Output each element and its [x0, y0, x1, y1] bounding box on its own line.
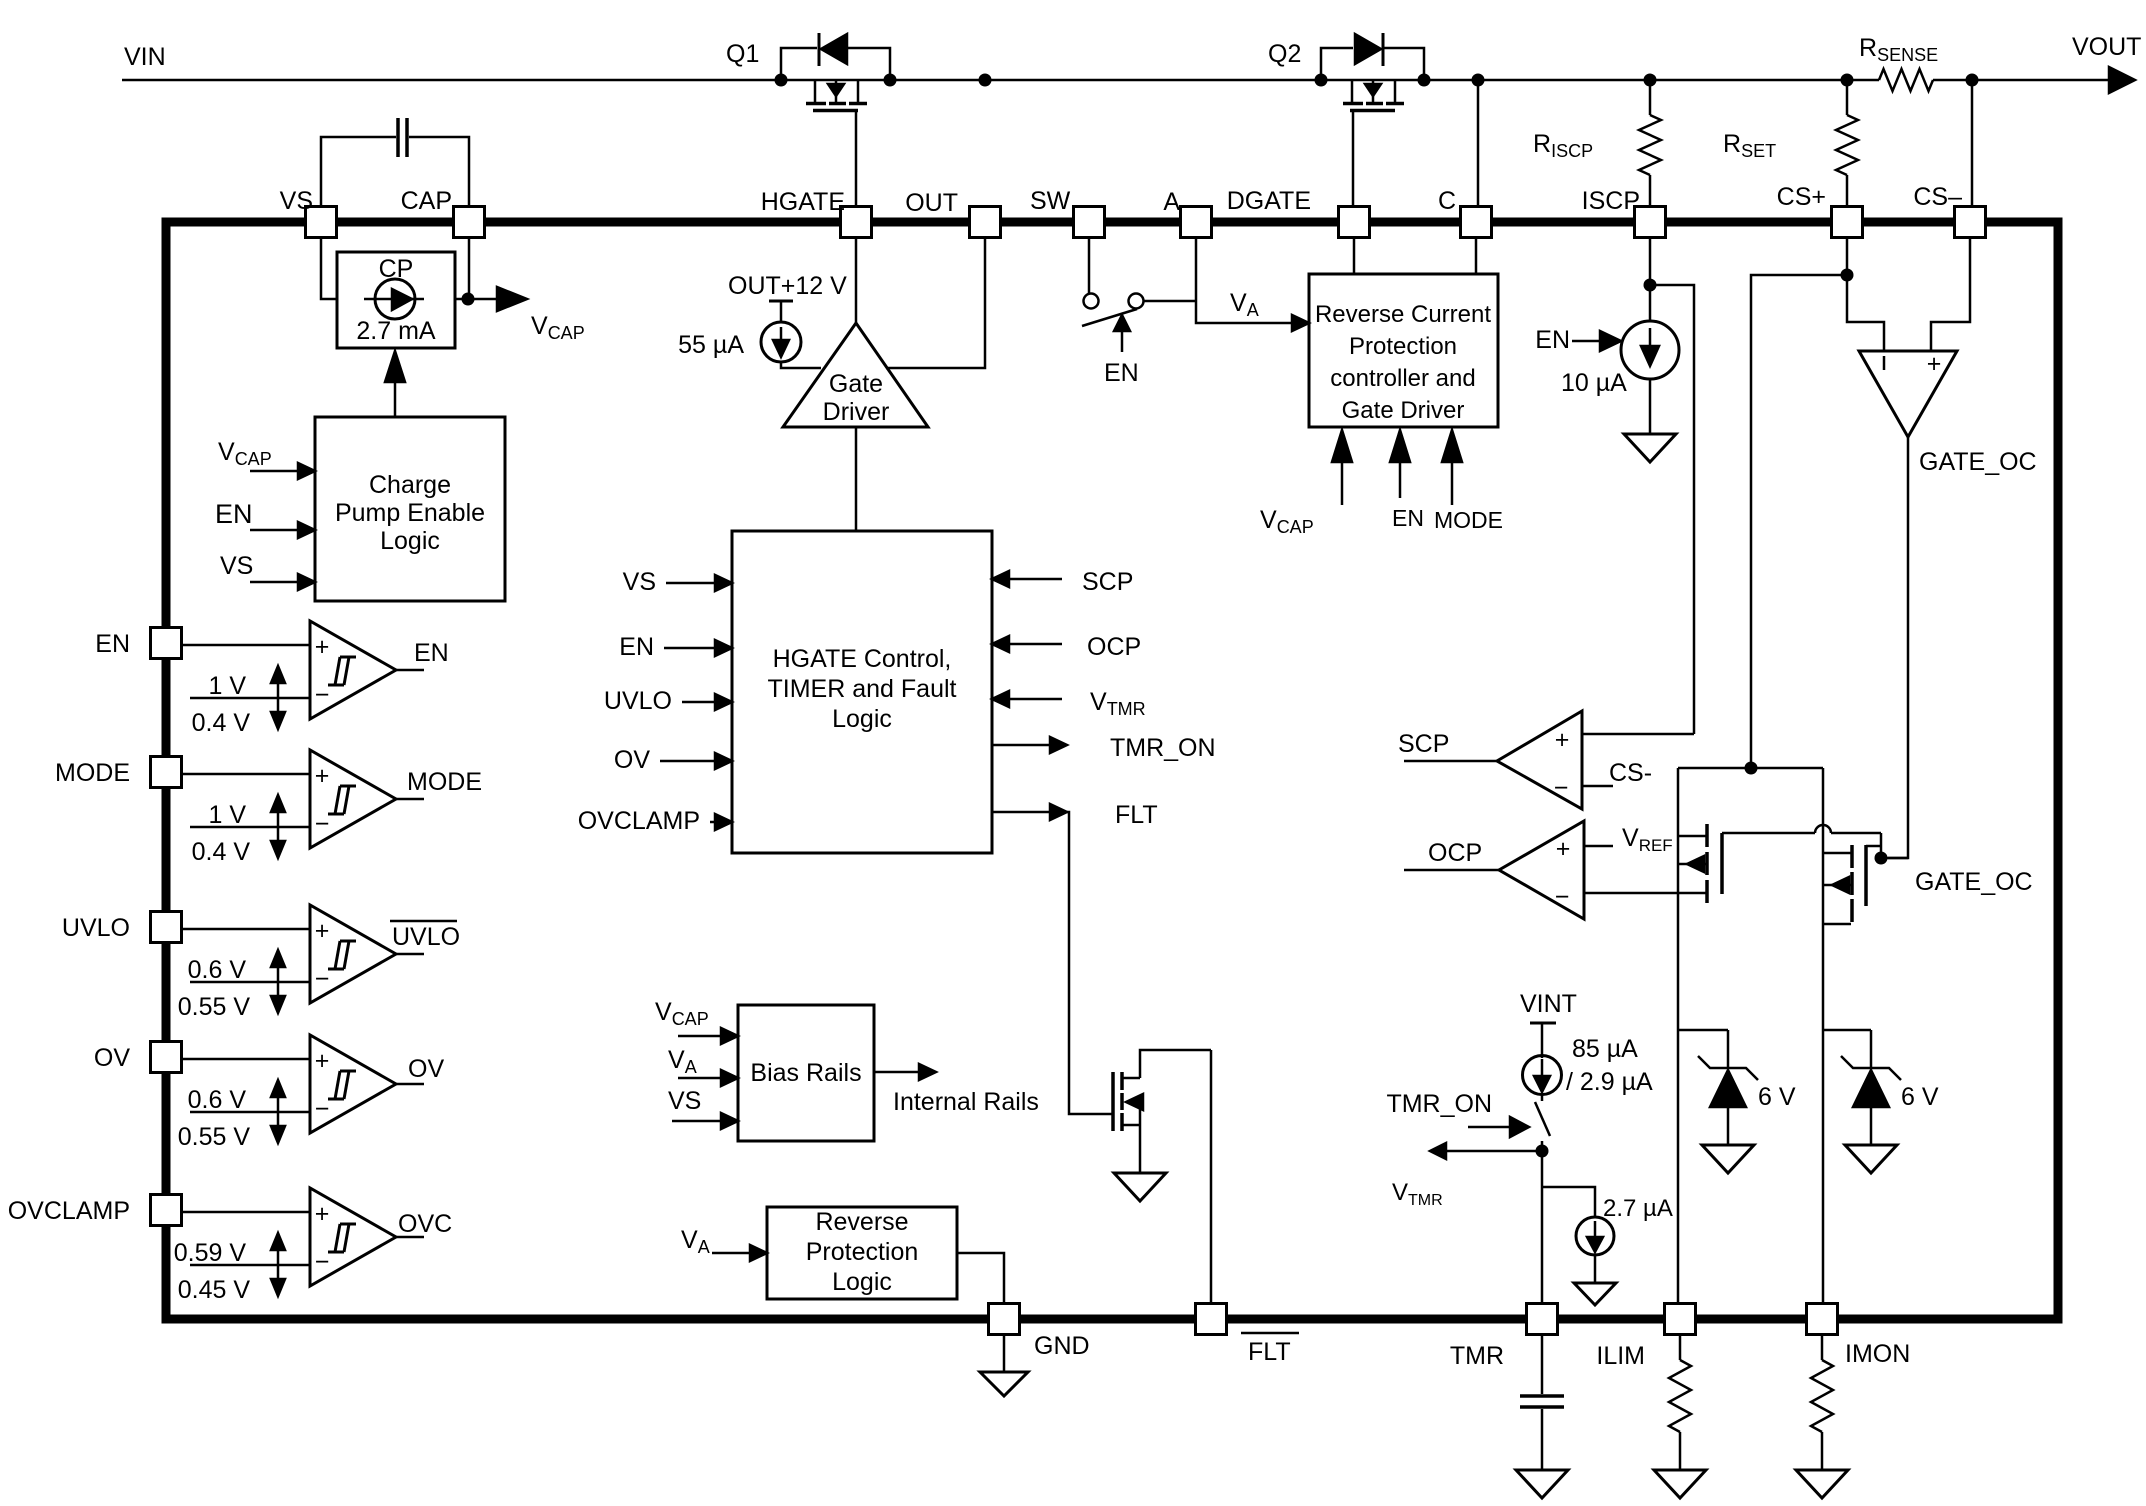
svg-text:EN: EN	[95, 630, 130, 658]
svg-text:OV: OV	[94, 1044, 130, 1072]
svg-text:VOUT: VOUT	[2072, 33, 2141, 61]
svg-text:OUT+12 V: OUT+12 V	[728, 272, 847, 300]
svg-text:GATE_OC: GATE_OC	[1915, 868, 2033, 896]
svg-text:VIN: VIN	[124, 43, 166, 71]
svg-text:−: −	[1554, 774, 1569, 802]
svg-text:OVCLAMP: OVCLAMP	[8, 1197, 130, 1225]
svg-text:TIMER and Fault: TIMER and Fault	[768, 675, 957, 703]
svg-text:−: −	[315, 1095, 330, 1123]
svg-text:0.55 V: 0.55 V	[178, 1123, 251, 1151]
svg-text:Reverse Current: Reverse Current	[1315, 301, 1491, 328]
svg-text:+: +	[315, 633, 330, 661]
svg-text:Logic: Logic	[380, 527, 440, 555]
svg-text:FLT: FLT	[1115, 801, 1158, 829]
svg-text:C: C	[1438, 187, 1456, 215]
svg-text:VS: VS	[280, 187, 313, 215]
svg-text:OUT: OUT	[905, 189, 958, 217]
svg-text:+: +	[315, 762, 330, 790]
svg-text:MODE: MODE	[1434, 507, 1503, 533]
svg-text:EN: EN	[619, 633, 654, 661]
svg-text:0.6 V: 0.6 V	[188, 1086, 247, 1114]
svg-text:TMR_ON: TMR_ON	[1386, 1090, 1492, 1118]
svg-text:EN: EN	[1392, 505, 1424, 531]
svg-text:DGATE: DGATE	[1227, 187, 1311, 215]
svg-text:Q2: Q2	[1268, 40, 1301, 68]
svg-text:55 µA: 55 µA	[678, 331, 744, 359]
svg-text:TMR_ON: TMR_ON	[1110, 734, 1216, 762]
svg-text:−: −	[315, 810, 330, 838]
svg-text:TMR: TMR	[1450, 1342, 1504, 1370]
svg-text:controller and: controller and	[1330, 365, 1475, 392]
svg-text:Protection: Protection	[1349, 333, 1457, 360]
svg-text:+: +	[315, 1047, 330, 1075]
svg-text:10 µA: 10 µA	[1561, 369, 1627, 397]
svg-text:OV: OV	[408, 1055, 444, 1083]
svg-text:85 µA: 85 µA	[1572, 1035, 1638, 1063]
svg-text:MODE: MODE	[55, 759, 130, 787]
svg-text:ISCP: ISCP	[1582, 187, 1640, 215]
svg-text:Pump Enable: Pump Enable	[335, 499, 485, 527]
svg-text:EN: EN	[215, 499, 253, 529]
svg-text:+: +	[1927, 350, 1942, 378]
svg-text:FLT: FLT	[1248, 1338, 1291, 1366]
svg-text:SCP: SCP	[1398, 730, 1449, 758]
svg-text:Q1: Q1	[726, 40, 759, 68]
svg-text:Protection: Protection	[806, 1238, 919, 1266]
svg-text:OV: OV	[614, 746, 650, 774]
svg-text:CAP: CAP	[401, 187, 452, 215]
svg-text:0.55 V: 0.55 V	[178, 993, 251, 1021]
svg-text:SCP: SCP	[1082, 568, 1133, 596]
svg-text:A: A	[1163, 188, 1180, 216]
svg-text:SW: SW	[1030, 187, 1071, 215]
svg-text:1 V: 1 V	[208, 672, 246, 700]
svg-text:EN: EN	[414, 639, 449, 667]
svg-text:Charge: Charge	[369, 471, 451, 499]
svg-text:−: −	[315, 681, 330, 709]
svg-text:2.7 mA: 2.7 mA	[356, 317, 436, 345]
svg-text:UVLO: UVLO	[62, 914, 130, 942]
svg-text:HGATE: HGATE	[761, 188, 845, 216]
svg-text:ILIM: ILIM	[1596, 1342, 1645, 1370]
svg-text:OCP: OCP	[1428, 839, 1482, 867]
svg-text:+: +	[315, 1200, 330, 1228]
svg-text:6 V: 6 V	[1901, 1083, 1939, 1111]
svg-text:0.4 V: 0.4 V	[192, 838, 251, 866]
svg-text:0.45 V: 0.45 V	[178, 1276, 251, 1304]
svg-text:+: +	[1556, 835, 1571, 863]
svg-text:0.4 V: 0.4 V	[192, 709, 251, 737]
svg-text:Internal Rails: Internal Rails	[893, 1088, 1039, 1116]
svg-text:Logic: Logic	[832, 705, 892, 733]
svg-text:Driver: Driver	[823, 398, 890, 426]
svg-text:CS+: CS+	[1777, 183, 1826, 211]
svg-text:GATE_OC: GATE_OC	[1919, 448, 2037, 476]
svg-text:EN: EN	[1104, 359, 1139, 387]
svg-text:GND: GND	[1034, 1332, 1090, 1360]
svg-text:IMON: IMON	[1845, 1340, 1910, 1368]
svg-text:VS: VS	[668, 1087, 701, 1115]
svg-text:OCP: OCP	[1087, 633, 1141, 661]
svg-text:Reverse: Reverse	[815, 1208, 908, 1236]
svg-text:MODE: MODE	[407, 768, 482, 796]
svg-text:CS-: CS-	[1609, 759, 1652, 787]
svg-text:VS: VS	[623, 568, 656, 596]
svg-text:1 V: 1 V	[208, 801, 246, 829]
svg-text:Gate: Gate	[829, 370, 883, 398]
svg-text:6 V: 6 V	[1758, 1083, 1796, 1111]
svg-text:OVCLAMP: OVCLAMP	[578, 807, 700, 835]
svg-text:CS–: CS–	[1913, 183, 1962, 211]
svg-text:VINT: VINT	[1520, 990, 1577, 1018]
svg-text:2.7 µA: 2.7 µA	[1603, 1195, 1673, 1222]
svg-text:OVC: OVC	[398, 1210, 452, 1238]
svg-text:Gate Driver: Gate Driver	[1342, 397, 1465, 424]
svg-text:+: +	[315, 917, 330, 945]
svg-text:−: −	[315, 1248, 330, 1276]
svg-text:0.59 V: 0.59 V	[174, 1239, 247, 1267]
svg-text:−: −	[1555, 883, 1570, 911]
svg-text:0.6 V: 0.6 V	[188, 956, 247, 984]
svg-text:Logic: Logic	[832, 1268, 892, 1296]
svg-text:EN: EN	[1535, 326, 1570, 354]
svg-text:−: −	[315, 965, 330, 993]
svg-text:UVLO: UVLO	[392, 923, 460, 951]
svg-text:/ 2.9 µA: / 2.9 µA	[1566, 1068, 1653, 1096]
svg-text:+: +	[1555, 726, 1570, 754]
svg-text:HGATE Control,: HGATE Control,	[773, 645, 952, 673]
svg-text:UVLO: UVLO	[604, 687, 672, 715]
svg-text:VS: VS	[220, 552, 253, 580]
svg-text:Bias Rails: Bias Rails	[750, 1059, 861, 1087]
